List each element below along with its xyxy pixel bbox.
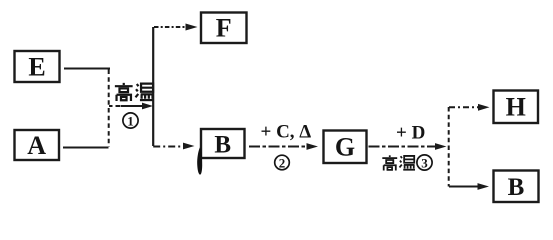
svg-text:G: G xyxy=(335,133,355,162)
arrow to B2 xyxy=(449,183,489,190)
box G xyxy=(324,131,367,164)
label 高温③ (hand-drawn glyphs) xyxy=(382,155,415,170)
arrow G to branch with label +D 高温③ xyxy=(369,143,447,150)
svg-text:1: 1 xyxy=(127,114,134,129)
dashed vertical wire joining E and A lines xyxy=(108,70,110,148)
svg-text:3: 3 xyxy=(421,156,428,171)
ink blob at B corner xyxy=(197,147,202,174)
svg-text:H: H xyxy=(506,93,526,122)
box H xyxy=(494,91,539,124)
arrow B to G with label +C,Δ ② xyxy=(249,143,318,150)
wire from E xyxy=(64,67,110,69)
svg-text:2: 2 xyxy=(279,156,286,171)
wire from A xyxy=(63,146,109,148)
svg-text:+ C, Δ: + C, Δ xyxy=(261,121,312,142)
svg-text:B: B xyxy=(214,132,231,159)
svg-text:E: E xyxy=(28,53,45,82)
box E xyxy=(15,51,60,82)
dashed vertical branch wire xyxy=(448,107,450,187)
arrow to B xyxy=(153,143,194,150)
label ③ xyxy=(417,155,432,171)
label ② xyxy=(275,155,290,170)
svg-text:+ D: + D xyxy=(396,123,425,144)
box A xyxy=(15,130,60,160)
arrow 高温 ① toward vertical bus xyxy=(109,103,153,110)
svg-text:A: A xyxy=(27,131,46,160)
dashed arrow to F xyxy=(154,24,198,31)
vertical bus wire xyxy=(152,27,154,146)
box B1 xyxy=(201,129,245,159)
label 高温 (hand-drawn glyphs) xyxy=(115,83,154,101)
svg-text:B: B xyxy=(508,174,525,201)
box B2 xyxy=(494,171,539,203)
box F xyxy=(201,13,247,44)
svg-text:F: F xyxy=(216,14,232,43)
label ① xyxy=(123,113,138,129)
dashed arrow to H xyxy=(449,104,490,111)
